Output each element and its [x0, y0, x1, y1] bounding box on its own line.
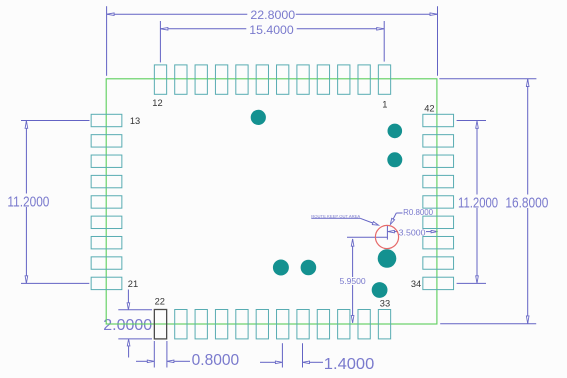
svg-text:1.4000: 1.4000 — [324, 356, 375, 373]
svg-text:11.2000: 11.2000 — [458, 195, 498, 211]
svg-text:13: 13 — [130, 116, 140, 126]
svg-text:12: 12 — [152, 98, 162, 108]
svg-text:15.4000: 15.4000 — [249, 24, 294, 37]
svg-text:16.8000: 16.8000 — [505, 195, 548, 211]
svg-text:1: 1 — [382, 100, 387, 110]
svg-text:11.2000: 11.2000 — [7, 195, 49, 211]
svg-text:34: 34 — [411, 279, 421, 289]
svg-text:3.5000: 3.5000 — [399, 227, 426, 237]
svg-text:33: 33 — [380, 298, 390, 308]
svg-text:22: 22 — [155, 296, 165, 306]
svg-text:ROUTE KEEP OUT AREA: ROUTE KEEP OUT AREA — [311, 214, 360, 219]
svg-text:0.8000: 0.8000 — [192, 352, 240, 369]
svg-text:22.8000: 22.8000 — [250, 9, 295, 22]
svg-text:21: 21 — [128, 279, 138, 289]
svg-text:2.0000: 2.0000 — [103, 317, 152, 334]
svg-text:42: 42 — [424, 103, 434, 113]
svg-text:5.9500: 5.9500 — [340, 276, 367, 286]
